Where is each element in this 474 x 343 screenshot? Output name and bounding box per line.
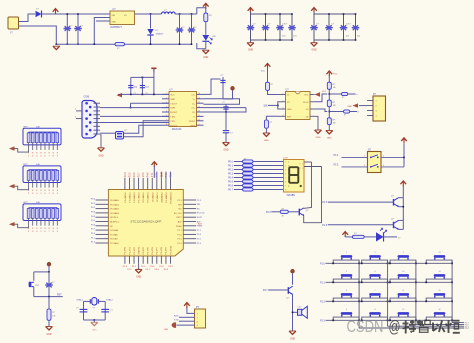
DB9 pin stub 7 — [94, 125, 101, 127]
node junctions input caps — [67, 13, 69, 15]
svg-text:3: 3 — [346, 290, 347, 292]
wire seg row 6 — [234, 185, 243, 187]
U4 pin L2 — [279, 101, 286, 103]
resistor RS6 — [243, 180, 254, 183]
svg-text:T2OUT: T2OUT — [188, 121, 195, 123]
svg-text:PSEN: PSEN — [176, 226, 182, 228]
svg-text:ALE/P4.5: ALE/P4.5 — [110, 221, 120, 224]
wire bank rails — [250, 12, 252, 15]
svg-text:C1-: C1- — [192, 103, 196, 105]
svg-text:P0.2/AD2: P0.2/AD2 — [110, 208, 120, 211]
connector P1 — [373, 96, 386, 121]
svg-text:GND: GND — [316, 137, 321, 139]
connector P2 download — [195, 309, 206, 328]
svg-text:GND: GND — [287, 109, 292, 111]
svg-text:P0.2: P0.2 — [228, 169, 234, 172]
wire MCU top right nets — [156, 172, 158, 178]
power port VCC bank — [311, 8, 317, 13]
MCU right pin 4 — [183, 212, 196, 214]
wire — [42, 13, 111, 15]
svg-text:P2.4/AD04: P2.4/AD04 — [124, 192, 127, 203]
svg-text:P0.0: P0.0 — [228, 161, 234, 164]
power arrow RP1 — [9, 146, 15, 150]
capacitor C8 — [222, 102, 229, 112]
svg-text:COM: COM — [84, 96, 90, 99]
resistor RS3 — [243, 168, 254, 171]
P1 pin 1 — [367, 100, 373, 102]
svg-text:ALE: ALE — [178, 221, 183, 224]
svg-text:RST2: RST2 — [197, 217, 203, 219]
DB9 pin stub 5 — [94, 118, 101, 120]
svg-text:7: 7 — [285, 186, 286, 188]
svg-text:R?: R? — [244, 175, 246, 177]
svg-text:11: 11 — [198, 115, 200, 117]
U4 pin R1 — [310, 94, 315, 96]
wire — [253, 165, 284, 167]
svg-text:13: 13 — [198, 106, 200, 108]
speaker LS1 — [292, 306, 308, 318]
MCU bottom pin 3 — [133, 256, 135, 264]
svg-text:10K: 10K — [36, 202, 40, 204]
svg-text:7: 7 — [374, 290, 375, 292]
svg-text:GND/AD84: GND/AD84 — [160, 192, 163, 203]
MCU top pin 3 — [133, 178, 135, 190]
key button S6 — [361, 252, 389, 264]
svg-text:12: 12 — [198, 111, 200, 113]
P1 pin 3 — [367, 110, 373, 112]
ground crystal — [91, 322, 98, 331]
resistor RS4 — [243, 172, 254, 175]
tap resistor R8 — [329, 93, 341, 95]
wire P2 gnd — [177, 324, 195, 326]
power flag VCC U4 — [315, 92, 321, 96]
svg-text:GND/T3: GND/T3 — [138, 246, 140, 254]
svg-text:P1.5: P1.5 — [465, 326, 469, 328]
MCU bottom pin 1 — [124, 256, 126, 264]
svg-text:P0.3: P0.3 — [228, 173, 234, 176]
MCU left pin 3 — [96, 208, 109, 210]
svg-text:GND: GND — [92, 329, 97, 331]
wire — [48, 297, 50, 309]
svg-text:6: 6 — [374, 271, 375, 273]
power port VCC MAX232 — [151, 68, 156, 72]
resistor R1 — [204, 8, 213, 22]
wire — [153, 68, 155, 94]
svg-text:@: @ — [389, 318, 401, 336]
wire to LED branch — [197, 8, 206, 14]
svg-text:11: 11 — [402, 290, 404, 292]
P1 pin 4 — [367, 115, 373, 117]
transistor Q3 — [391, 218, 399, 229]
capacitor bank B C4 — [352, 14, 360, 40]
DS1 common pins — [304, 161, 312, 163]
wire — [84, 319, 106, 321]
svg-text:1: 1 — [346, 252, 347, 254]
MCU bottom pin 4 — [138, 256, 140, 264]
power port VCC S1 — [401, 138, 407, 143]
svg-text:P1.4: P1.4 — [465, 328, 469, 330]
svg-text:1: 1 — [376, 101, 377, 103]
svg-text:STC12C5A60S2-LQFP: STC12C5A60S2-LQFP — [130, 219, 161, 223]
DB9 pin dot R4 — [89, 129, 92, 132]
wire seg row 0 — [234, 161, 243, 163]
svg-text:XT2/AD64: XT2/AD64 — [151, 192, 154, 202]
svg-text:2: 2 — [346, 271, 347, 273]
fuse F1 — [115, 43, 125, 50]
MCU top pin 6 — [147, 178, 149, 190]
svg-text:2: 2 — [376, 106, 377, 108]
resistor R11 — [47, 309, 56, 320]
wire — [253, 189, 284, 191]
power port dot — [223, 91, 233, 100]
svg-text:1: 1 — [197, 314, 198, 316]
svg-text:P2.7/AD34: P2.7/AD34 — [138, 192, 141, 203]
wire — [15, 186, 29, 190]
svg-text:P2.2/A10: P2.2/A10 — [110, 242, 119, 245]
MCU left pin 6 — [96, 221, 109, 223]
tap resistor R9 — [329, 111, 343, 113]
capacitor C10 — [45, 272, 55, 297]
svg-text:10K: 10K — [36, 127, 40, 129]
crystal Y2 — [90, 298, 98, 310]
ground U4 — [315, 130, 322, 139]
power port VCC bank — [248, 8, 254, 13]
wire loop A — [100, 132, 116, 134]
ground LED — [202, 50, 209, 59]
svg-text:8: 8 — [166, 124, 167, 126]
svg-text:2: 2 — [285, 166, 286, 168]
svg-text:SCLK: SCLK — [303, 102, 309, 104]
capacitor bank A C4 — [288, 14, 296, 40]
svg-text:P0.7: P0.7 — [228, 189, 234, 192]
svg-text:3: 3 — [285, 170, 286, 172]
wire keypad column 3 — [416, 260, 464, 324]
svg-text:16: 16 — [438, 309, 440, 311]
svg-text:LM7805CT: LM7805CT — [110, 26, 122, 29]
DB9 pin dot R3 — [89, 121, 92, 124]
svg-text:R2OUT: R2OUT — [170, 125, 178, 127]
svg-text:P1.5: P1.5 — [322, 202, 327, 204]
svg-text:R?: R? — [344, 114, 346, 116]
svg-text:P2.4: P2.4 — [125, 172, 127, 177]
svg-text:2: 2 — [166, 98, 167, 100]
wire cap to gnd — [225, 112, 227, 129]
svg-text:XTAL2: XTAL2 — [106, 298, 113, 301]
svg-text:P4.1/AD94: P4.1/AD94 — [165, 192, 168, 203]
power port VCC Q — [401, 181, 407, 198]
svg-text:3: 3 — [376, 111, 377, 113]
DB9 pin dot R2 — [89, 113, 92, 116]
MCU bottom pin 2 — [128, 256, 130, 264]
DB9 pin dot R1 — [89, 106, 92, 109]
svg-text:P1.6: P1.6 — [322, 225, 327, 227]
U2 pin L3 — [162, 102, 169, 104]
wire — [313, 40, 315, 43]
capacitor C12 — [101, 309, 113, 312]
transistor Q1 — [299, 208, 309, 216]
svg-text:GND: GND — [98, 156, 103, 158]
svg-text:VCC: VCC — [333, 74, 338, 76]
wire U2 right p1 — [204, 79, 221, 94]
svg-text:P0.0/AD0: P0.0/AD0 — [110, 199, 120, 202]
wire crystal — [84, 300, 91, 302]
svg-text:14: 14 — [198, 102, 200, 104]
wire S1 vcc — [403, 144, 405, 167]
svg-text:P1.3: P1.3 — [320, 320, 325, 322]
key button S3 — [332, 271, 360, 283]
U2 pin R3 — [197, 102, 204, 104]
wire — [253, 169, 284, 171]
wire Q4 emitter — [292, 295, 294, 331]
key button S8 — [361, 290, 389, 302]
capacitor C6 — [140, 77, 150, 95]
wire keypad row 3 — [326, 300, 453, 302]
MCU top pin 10 — [165, 178, 167, 190]
svg-text:P3.7/T5: P3.7/T5 — [148, 246, 150, 254]
IC U4 body — [286, 92, 311, 120]
watermark char 以 — [433, 321, 445, 333]
MCU top pin 11 — [170, 178, 172, 190]
svg-text:32K: 32K — [263, 106, 268, 108]
resistor R4 — [266, 116, 278, 120]
wire regulator gnd — [94, 18, 110, 45]
MCU top pin 2 — [128, 178, 130, 190]
svg-text:3161BS: 3161BS — [286, 194, 295, 197]
wire common loop — [304, 162, 312, 208]
S1 right wire 1 — [381, 156, 404, 158]
wire — [344, 236, 346, 237]
svg-text:P2.5: P2.5 — [129, 172, 131, 177]
svg-text:9: 9 — [403, 252, 404, 254]
svg-text:3: 3 — [383, 165, 384, 167]
wire — [268, 90, 279, 94]
wire Q2 c/e — [399, 197, 404, 199]
svg-text:R1IN: R1IN — [170, 108, 175, 110]
resistor R10 — [352, 233, 364, 239]
diode D2 1N4007 — [147, 14, 164, 44]
wire U4 R2 to chain — [315, 94, 328, 102]
wire base — [288, 211, 299, 213]
svg-text:ALE: ALE — [198, 223, 202, 226]
7-segment display DS1 — [284, 160, 305, 193]
capacitor C3 — [176, 14, 186, 44]
svg-text:2: 2 — [197, 317, 198, 319]
svg-text:P3.4/T8: P3.4/T8 — [161, 246, 163, 254]
wire pins 2-3 — [277, 102, 280, 109]
svg-text:VCC: VCC — [322, 91, 327, 93]
svg-text:P0.3/AD3: P0.3/AD3 — [110, 212, 120, 215]
svg-text:P3.0/AD104: P3.0/AD104 — [170, 192, 173, 204]
svg-text:R?: R? — [244, 167, 246, 169]
S1 left wire 2 — [342, 166, 368, 168]
resistor network RP1 — [23, 128, 61, 145]
svg-text:XT1/AD74: XT1/AD74 — [156, 192, 159, 202]
U2 pin R7 — [197, 120, 204, 122]
resistor R5 — [327, 82, 336, 89]
wire U2 right p5 — [204, 108, 247, 112]
svg-text:9: 9 — [199, 124, 200, 126]
U2 pin L4 — [162, 107, 169, 109]
svg-text:10K: 10K — [36, 164, 40, 166]
MCU right pin 2 — [183, 203, 196, 205]
switch S1 pole 2 — [370, 166, 372, 168]
watermark char 持 — [403, 320, 417, 334]
svg-text:10: 10 — [402, 271, 404, 273]
wire — [359, 105, 367, 107]
wire — [253, 173, 284, 175]
wire loop B — [124, 121, 163, 137]
key button S14 — [425, 252, 453, 264]
resistor R6 — [327, 100, 336, 107]
power port reset — [47, 262, 51, 272]
resistor RS7 — [243, 184, 254, 187]
svg-text:R?: R? — [244, 187, 246, 189]
MCU top pin 5 — [142, 178, 144, 190]
svg-text:EX_LVD: EX_LVD — [174, 213, 182, 215]
svg-text:R?: R? — [244, 179, 246, 181]
svg-text:3: 3 — [197, 321, 198, 323]
DB9 pin stub 8 — [94, 129, 101, 131]
DB9 pin stub 9 — [94, 133, 101, 135]
svg-text:GND: GND — [136, 277, 141, 279]
MCU left pin 1 — [96, 199, 109, 201]
inductor L1 — [162, 12, 176, 14]
watermark char 恒 — [446, 320, 460, 333]
svg-text:TXD: TXD — [174, 319, 179, 321]
resistor R3 pullup — [261, 64, 274, 91]
DB9 pin dot L1 — [85, 102, 88, 105]
wire U4 R4 gnd — [315, 116, 319, 130]
svg-text:P3.7: P3.7 — [263, 290, 268, 292]
key button S7 — [361, 271, 389, 283]
MCU bottom pin 8 — [156, 256, 158, 264]
MCU bottom pin 11 — [170, 256, 172, 264]
wire pin1 rail — [118, 93, 169, 95]
svg-text:15: 15 — [198, 98, 200, 100]
svg-text:8: 8 — [374, 309, 375, 311]
svg-text:1: 1 — [364, 155, 365, 157]
wire keypad row 4 — [326, 319, 453, 321]
U2 pin L1 — [162, 93, 169, 95]
wire keypad row 2 — [326, 281, 453, 283]
wire bank rails — [313, 12, 315, 15]
resistor R2 base — [280, 208, 288, 217]
svg-text:3: 3 — [283, 108, 284, 110]
MCU right pin 11 — [183, 242, 196, 244]
svg-text:R1OUT: R1OUT — [170, 112, 178, 114]
U4 pin L3 — [279, 108, 286, 110]
DB9 pin stub 2 — [94, 106, 101, 108]
resistor RS5 — [243, 176, 254, 179]
wire keypad row 1 — [326, 262, 453, 264]
svg-text:VO: VO — [124, 15, 127, 17]
svg-text:RST2: RST2 — [176, 217, 182, 219]
MCU right pin 5 — [183, 216, 196, 218]
key button S12 — [389, 290, 417, 302]
power arrow LED branch — [342, 232, 348, 237]
svg-text:R?: R? — [342, 97, 344, 99]
svg-text:8: 8 — [285, 190, 286, 192]
wire — [328, 125, 330, 131]
connector COM1 DB9 — [82, 101, 97, 139]
power port VCC chain — [327, 71, 338, 82]
svg-text:4: 4 — [283, 115, 284, 117]
LED D4 — [376, 228, 387, 242]
wire P2 vcc — [187, 307, 195, 313]
ground reset — [46, 327, 53, 337]
wire Q4 base — [268, 289, 288, 291]
wire — [253, 181, 284, 183]
svg-text:NC: NC — [110, 226, 113, 228]
U2 pin L6 — [162, 115, 169, 117]
wire GND rail — [56, 43, 191, 45]
svg-text:2: 2 — [364, 165, 365, 167]
svg-text:R?: R? — [244, 159, 246, 161]
capacitor bank B C2 — [325, 14, 333, 40]
wire — [19, 26, 57, 44]
svg-text:P3.4: P3.4 — [334, 155, 339, 157]
wire seg row 1 — [234, 165, 243, 167]
capacitor C4 — [188, 14, 198, 44]
U4 pin L4 — [279, 115, 286, 117]
op-amp U2 MAX232 body — [169, 92, 197, 127]
wire DB9 to MAX232 B — [100, 115, 169, 117]
power port VCC LED — [203, 3, 209, 8]
svg-text:5: 5 — [374, 252, 375, 254]
wire keypad column 1 — [359, 260, 464, 328]
DB9 pin stub 3 — [94, 110, 101, 112]
svg-text:NC/P4.4: NC/P4.4 — [110, 217, 119, 219]
power flag GND P1 — [353, 103, 359, 107]
svg-text:P3.3/T9: P3.3/T9 — [166, 246, 168, 254]
svg-text:VCC: VCC — [304, 95, 309, 97]
svg-text:P2.0: P2.0 — [266, 211, 272, 214]
resistor R7 — [327, 118, 336, 125]
svg-text:P0.5: P0.5 — [228, 181, 234, 184]
capacitor bank B C1 — [310, 14, 318, 40]
MCU left pin 4 — [96, 212, 109, 214]
svg-text:P2.5/AD14: P2.5/AD14 — [128, 192, 131, 203]
power connector J1 — [8, 17, 19, 29]
svg-text:P1.1/T2: P1.1/T2 — [134, 246, 136, 254]
svg-text:14: 14 — [438, 271, 440, 273]
U2 pin L5 — [162, 111, 169, 113]
transistor Q2 — [391, 196, 399, 207]
key button S16 — [425, 290, 453, 302]
DB9 pin dot L3 — [85, 117, 88, 120]
capacitor bank A C3 — [276, 14, 284, 40]
U4 pin R2 — [310, 101, 315, 103]
wire — [250, 40, 252, 43]
svg-text:P1.3/T0: P1.3/T0 — [125, 246, 127, 254]
ground bank — [247, 43, 254, 52]
MCU right pin 3 — [183, 208, 196, 210]
svg-text:GND: GND — [203, 57, 208, 59]
capacitor bank A C2 — [262, 14, 270, 40]
svg-text:P2.7: P2.7 — [138, 172, 140, 177]
wire P2 rxd — [179, 316, 195, 318]
svg-text:EX_LVD: EX_LVD — [197, 213, 205, 215]
MCU right pin 1 — [183, 199, 196, 201]
U2 pin R4 — [197, 107, 204, 109]
capacitor C5 — [128, 77, 138, 95]
svg-text:T1OUT: T1OUT — [170, 103, 177, 105]
capacitor C7 — [220, 75, 225, 99]
svg-text:GND: GND — [223, 149, 228, 151]
S1 left wire 1 — [342, 156, 368, 158]
key button S17 — [425, 309, 453, 321]
U2 pin L2 — [162, 98, 169, 100]
